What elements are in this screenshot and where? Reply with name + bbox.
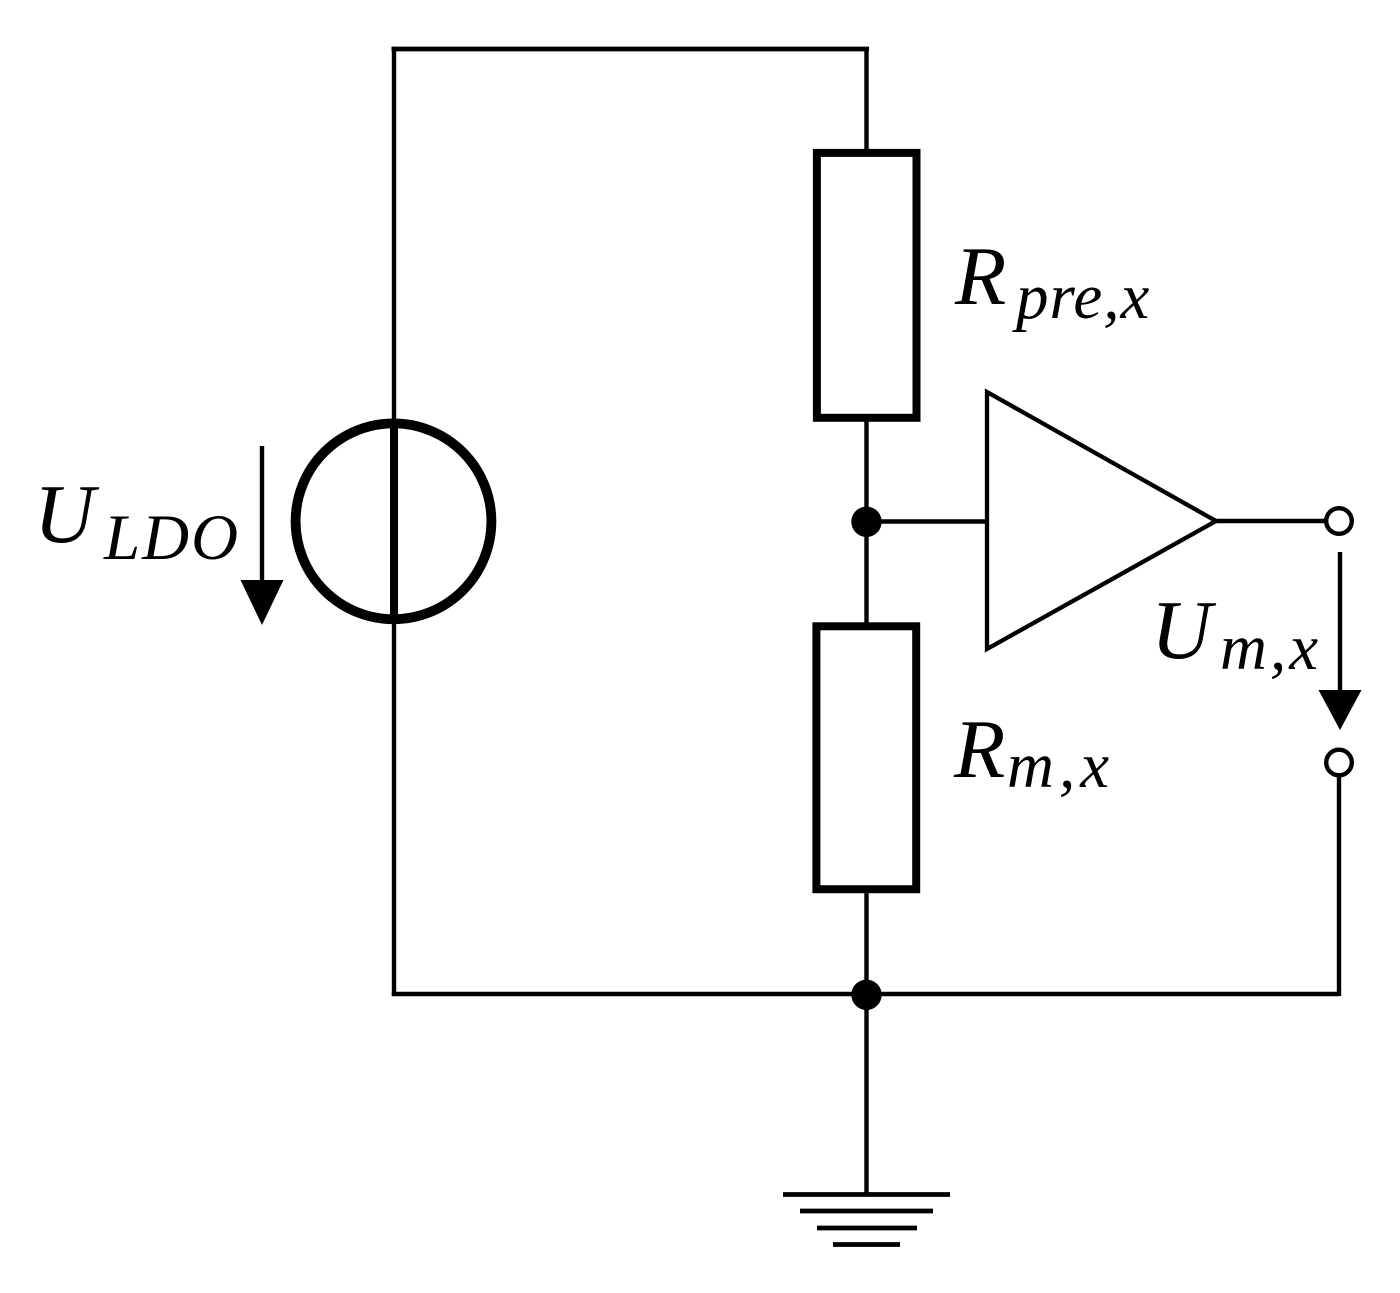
wire node B to ground xyxy=(864,995,868,1197)
output terminal bottom xyxy=(1326,750,1352,776)
svg-text:LDO: LDO xyxy=(103,502,240,574)
op-amp buffer U1 xyxy=(987,392,1216,649)
voltage source diameter bar xyxy=(390,420,398,623)
wire right branch top vertical xyxy=(864,47,868,155)
resistor R_pre,x xyxy=(817,153,917,418)
wire R_pre,x to node A xyxy=(864,417,868,522)
wire R_m,x to node B xyxy=(864,888,868,996)
svg-text:R: R xyxy=(954,230,1006,323)
svg-text:R: R xyxy=(953,703,1005,796)
svg-text:m,x: m,x xyxy=(1220,612,1321,684)
wire terminal bottom to bottom rail xyxy=(1337,775,1341,996)
resistor R_m,x xyxy=(816,626,916,889)
wire node A to R_m,x xyxy=(864,522,868,628)
node A junction dot xyxy=(851,507,881,537)
label U_m,x xyxy=(1151,584,1321,684)
svg-text:m,x: m,x xyxy=(1007,730,1114,802)
U_m,x voltage arrow line xyxy=(1338,552,1342,697)
svg-text:U: U xyxy=(1151,584,1217,677)
wire bottom horizontal xyxy=(392,992,1339,996)
output terminal top xyxy=(1326,508,1352,534)
label R_pre,x xyxy=(954,230,1150,333)
wire node A to op-amp input xyxy=(867,519,990,523)
U_LDO voltage arrow head xyxy=(241,580,284,625)
U_m,x voltage arrow head xyxy=(1319,690,1362,730)
label U_LDO xyxy=(34,468,240,574)
voltage source U_LDO circle xyxy=(296,423,492,619)
ground xyxy=(783,1195,950,1245)
U_LDO voltage arrow line xyxy=(260,446,264,592)
wire op-amp output to terminal xyxy=(1214,519,1325,523)
label R_m,x xyxy=(953,703,1114,802)
node B junction dot xyxy=(851,980,881,1010)
wire top horizontal xyxy=(392,47,870,52)
svg-text:pre,x: pre,x xyxy=(1012,261,1150,333)
svg-text:U: U xyxy=(34,468,100,561)
wire left vertical xyxy=(392,47,396,996)
